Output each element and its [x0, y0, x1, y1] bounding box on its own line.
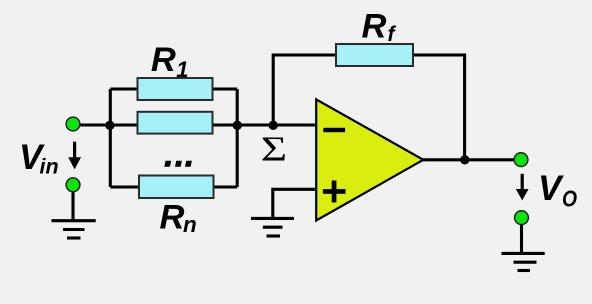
op-amp U1 [316, 99, 423, 220]
junction dot: right rail node [233, 121, 242, 130]
wire: left stub to Rn [110, 185, 140, 188]
ground (output, under Vo) [502, 253, 545, 270]
op-amp non-inverting input symbol (plus) [323, 189, 346, 194]
wire: right rail of resistor bank [236, 89, 239, 187]
ground (input, under Vin) [52, 221, 96, 238]
terminal: Vin upper (green) [66, 117, 80, 131]
wire: Vin lower terminal to ground stem [71, 185, 74, 220]
resistor Rn [139, 176, 214, 199]
junction dot: input node [105, 121, 114, 130]
wire: right stub from Rn [212, 185, 237, 188]
arrow: Vo direction [516, 174, 529, 201]
wire: main input line Vin to op-amp inverting input [73, 123, 317, 126]
resistor R2 (middle, unlabeled) [138, 112, 213, 134]
resistor Rf (feedback) [336, 44, 413, 66]
wire: left rail of resistor bank [109, 89, 112, 187]
op-amp inverting input symbol (minus) [323, 128, 345, 132]
terminal: Vo lower (green) [515, 211, 529, 225]
svg-text:1: 1 [176, 57, 188, 82]
wire: left stub to R1 [110, 87, 138, 90]
svg-text:n: n [183, 212, 197, 237]
arrow: Vin direction [68, 142, 81, 170]
svg-text:R: R [151, 41, 176, 79]
terminal: Vin lower (green) [66, 178, 80, 192]
wire: Vo lower terminal to ground stem [520, 218, 523, 253]
wire: feedback left segment up from summing node to Rf [273, 55, 336, 125]
label ... (ellipsis between R2 and Rn) [164, 161, 192, 167]
label Vin [19, 138, 59, 178]
wire: non-inverting input to ground [273, 189, 317, 218]
wire: feedback right segment from Rf down to output [413, 55, 465, 160]
junction dot: summing node [269, 121, 278, 130]
resistor R1 [138, 78, 213, 100]
wire: right stub from R1 [212, 87, 237, 90]
svg-text:V: V [538, 169, 564, 208]
label Rn [160, 198, 197, 237]
ground (op-amp non-inverting input) [251, 218, 294, 236]
svg-text:R: R [160, 198, 185, 236]
label Vo [538, 169, 577, 212]
svg-text:O: O [562, 187, 577, 212]
svg-text:in: in [40, 154, 59, 178]
terminal: Vo upper (green) [514, 153, 528, 167]
svg-text:R: R [362, 8, 387, 46]
label R1 [151, 41, 189, 82]
wire: op-amp output to Vo terminal [421, 158, 521, 161]
label Rf [362, 8, 397, 47]
junction dot: output node [460, 155, 469, 164]
svg-text:Σ: Σ [261, 130, 287, 169]
